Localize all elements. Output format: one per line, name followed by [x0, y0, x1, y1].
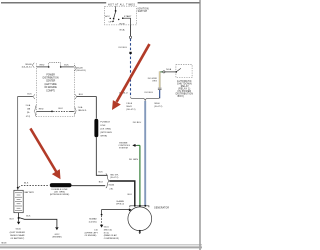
battery — [14, 190, 23, 212]
brace bottom left — [34, 105, 36, 116]
svg-text:DK BLU: DK BLU — [145, 92, 154, 94]
svg-text:96136: 96136 — [109, 184, 115, 186]
wire left feed vertical — [17, 96, 19, 187]
svg-text:G100: G100 — [16, 229, 22, 231]
arrowhead into generator — [129, 208, 132, 211]
svg-text:COMPT): COMPT) — [46, 90, 55, 92]
automatic shutdown relay box — [176, 65, 192, 78]
svg-text:(9L-07.2): (9L-07.2) — [110, 177, 118, 179]
svg-text:FUSIBLE: FUSIBLE — [100, 122, 110, 124]
fuse row wire right — [61, 66, 74, 68]
wire relay horizontal — [165, 71, 176, 73]
svg-text:(14L-04.2L): (14L-04.2L) — [22, 67, 32, 69]
svg-text:HOT AT ALL TIMES: HOT AT ALL TIMES — [108, 3, 135, 6]
power distribution center box — [36, 63, 74, 116]
wire thick blue to generator — [144, 101, 146, 206]
wire stub to green — [135, 144, 137, 146]
battery feed junction dot — [17, 187, 19, 189]
svg-text:(DK GRN): (DK GRN) — [100, 129, 111, 131]
svg-text:POWER: POWER — [46, 74, 55, 76]
svg-text:2.8L-B: 2.8L-B — [126, 103, 133, 105]
generator case ground wire — [102, 210, 130, 215]
red arrow 2 — [29, 128, 60, 179]
svg-text:(14L-07.2): (14L-07.2) — [126, 109, 136, 111]
svg-text:BLK: BLK — [64, 65, 69, 67]
fuse row wire left — [37, 66, 49, 68]
svg-text:BATTERY: BATTERY — [25, 191, 35, 194]
svg-text:BLK: BLK — [79, 94, 84, 96]
ground G100 — [18, 219, 20, 222]
merge brace — [106, 174, 109, 188]
svg-text:DK GRN: DK GRN — [129, 159, 138, 161]
inline connector — [158, 87, 162, 89]
generator ground dot — [139, 230, 141, 232]
top border — [1, 2, 200, 4]
svg-text:ORG: ORG — [152, 81, 157, 83]
svg-text:(9L-07.2): (9L-07.2) — [154, 106, 162, 108]
svg-text:(MTR/GEN: (MTR/GEN — [100, 132, 112, 134]
svg-text:SHIELD NEAR: SHIELD NEAR — [10, 234, 25, 237]
svg-text:(980 3.6L: (980 3.6L — [104, 229, 113, 231]
svg-text:OF ENGINE: OF ENGINE — [44, 87, 57, 89]
START dot — [122, 17, 124, 19]
svg-text:COMPRESSOR): COMPRESSOR) — [104, 238, 119, 240]
fusible link 2 pill — [50, 183, 72, 187]
svg-text:FUSIBLE LINK: FUSIBLE LINK — [52, 189, 68, 191]
ignition switch terminal stub — [115, 6, 117, 10]
svg-text:OF ENGINE): OF ENGINE) — [85, 235, 97, 237]
svg-text:BLK: BLK — [98, 172, 103, 174]
svg-text:(LEFT FENDER: (LEFT FENDER — [10, 232, 26, 234]
svg-text:RED: RED — [39, 108, 44, 110]
connector circle — [129, 36, 131, 38]
svg-text:OF BATTERY): OF BATTERY) — [10, 237, 24, 240]
svg-text:BLK: BLK — [24, 182, 29, 184]
svg-text:8L6NA8: 8L6NA8 — [89, 217, 97, 220]
svg-text:DK BLU: DK BLU — [133, 122, 142, 124]
svg-text:SYSTEM: SYSTEM — [119, 148, 128, 150]
battery negative wire — [18, 213, 20, 218]
svg-text:(9L-: (9L- — [27, 112, 31, 114]
ground G112 — [55, 227, 58, 230]
svg-text:NCA: NCA — [166, 68, 171, 71]
dashed ground wire — [101, 216, 103, 225]
right border — [199, 0, 201, 250]
bottom border — [0, 244, 202, 246]
svg-text:BLK: BLK — [128, 194, 133, 196]
svg-text:BLK: BLK — [27, 94, 32, 96]
wire mid row left — [18, 96, 33, 98]
brace left fuse row — [32, 63, 34, 68]
svg-text:07.2): 07.2) — [26, 116, 31, 118]
red arrow 1 — [112, 43, 151, 110]
relay entry dot — [175, 71, 177, 73]
brace mid left — [33, 95, 35, 99]
fusible link 1 pill — [94, 119, 98, 138]
svg-text:(UPPER LEFT: (UPPER LEFT — [85, 232, 99, 234]
label HOT AT ALL TIMES — [106, 2, 137, 6]
wire green vertical to generator — [139, 145, 141, 205]
inline connector block — [129, 52, 131, 54]
wire dk blu dashed from ignition — [130, 39, 132, 97]
terminal dots — [134, 205, 136, 207]
svg-text:8.T.2): 8.T.2) — [104, 232, 109, 234]
svg-text:NCA: NCA — [120, 29, 125, 32]
bottom fuse row — [37, 110, 52, 112]
fuse F element dashed arch — [49, 62, 61, 66]
svg-text:GENERATOR: GENERATOR — [154, 206, 169, 209]
svg-text:BLK: BLK — [26, 215, 31, 217]
svg-text:1BB-10.2L: 1BB-10.2L — [78, 110, 87, 112]
brace mid right — [75, 95, 77, 99]
relay contact lever — [176, 68, 180, 71]
svg-text:MCM: MCM — [2, 243, 7, 245]
svg-text:ACC: ACC — [105, 15, 110, 18]
wire thick black B+ to generator — [109, 181, 134, 206]
svg-text:DISTRIBUTION: DISTRIBUTION — [43, 78, 59, 80]
pivot dot — [113, 18, 115, 20]
wire dk blu vertical — [159, 90, 161, 98]
svg-text:2-6.A: 2-6.A — [78, 106, 83, 109]
generator circle — [128, 207, 152, 231]
wire ignition output — [130, 25, 132, 36]
wire START to output — [124, 18, 131, 25]
wire yellow vertical — [159, 71, 161, 87]
generator ground triangle — [139, 232, 141, 234]
wire below fusible link 1 — [96, 137, 107, 175]
svg-text:(TP 8LO): (TP 8LO) — [116, 203, 125, 205]
svg-text:(DK GRN): (DK GRN) — [54, 192, 65, 194]
OFF dot — [113, 21, 114, 22]
svg-text:96041: 96041 — [126, 106, 132, 108]
svg-text:START: START — [124, 15, 132, 18]
svg-text:SWITCH: SWITCH — [138, 11, 148, 13]
svg-text:RUN: RUN — [120, 24, 125, 26]
svg-text:BLK: BLK — [99, 182, 104, 184]
junction dot — [101, 214, 103, 216]
wire fusible link 2 to brace — [72, 185, 106, 187]
ground G101 — [100, 225, 103, 228]
svg-text:RED: RED — [40, 65, 45, 67]
svg-text:(C4 820): (C4 820) — [89, 221, 97, 223]
svg-text:(MTR/GEN WIRE): (MTR/GEN WIRE) — [50, 194, 70, 196]
switch lever — [114, 11, 116, 19]
RUN dot — [118, 19, 119, 20]
arrowhead to engine controls — [132, 144, 135, 147]
wire dashed to fusible link 2 — [19, 186, 49, 188]
svg-text:BLK: BLK — [10, 219, 15, 221]
svg-text:BOX): BOX) — [178, 96, 184, 98]
svg-text:(14L-04.2L): (14L-04.2L) — [76, 70, 86, 72]
svg-text:DK BLU: DK BLU — [119, 47, 128, 49]
wire dk grn segment — [160, 71, 163, 73]
terminal dot — [115, 10, 117, 12]
svg-text:(REAR OF A/C: (REAR OF A/C — [104, 234, 118, 237]
svg-text:(ENGINE): (ENGINE) — [53, 236, 62, 238]
junction dot — [18, 217, 20, 219]
connector circle — [163, 71, 165, 73]
splice underbrace — [131, 97, 160, 101]
svg-text:OFF: OFF — [109, 21, 114, 23]
ignition switch box — [104, 6, 136, 25]
svg-text:96100: 96100 — [154, 103, 160, 105]
wire green horizontal — [137, 144, 140, 146]
svg-text:BLK: BLK — [59, 108, 64, 110]
ACC dot — [110, 18, 111, 19]
svg-text:2-6.A: 2-6.A — [26, 104, 31, 107]
brace right fuse row — [74, 65, 76, 71]
wire mid row right — [77, 97, 97, 119]
svg-text:(LEFT SIDE: (LEFT SIDE — [45, 84, 58, 86]
brace bottom right — [74, 107, 76, 114]
fuse terminal dots — [48, 66, 50, 68]
generator connector bar — [130, 206, 149, 208]
svg-text:CENTER: CENTER — [46, 81, 56, 83]
svg-text:LINK: LINK — [100, 125, 106, 127]
wire to G112 — [19, 218, 57, 227]
svg-text:WIRE): WIRE) — [100, 136, 107, 138]
